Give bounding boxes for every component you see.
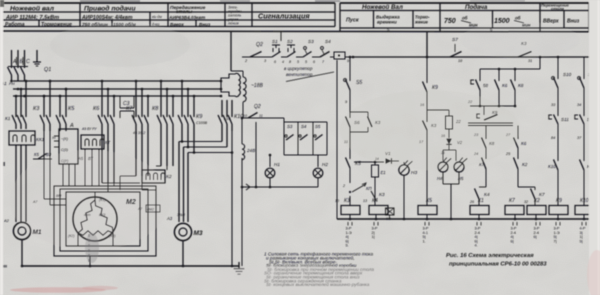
wire K6 K7 drops to M2 loop (102, 131, 148, 190)
switch S6 with parallel contact K3 (344, 112, 381, 144)
svg-text:!Н: !Н (52, 136, 56, 140)
thermal overload relay KK2 (142, 131, 172, 183)
svg-text:К3: К3 (33, 106, 40, 112)
svg-text:84: 84 (551, 136, 555, 140)
svg-text:КП: КП (366, 186, 372, 191)
svg-text:С: С (26, 59, 30, 65)
switch S11 delayed (549, 115, 569, 162)
svg-text:8: 8 (289, 60, 291, 64)
svg-text:принципиальная СР6-10 00 0028: принципиальная СР6-10 00 00283 (449, 262, 547, 268)
wire M3 feeder links (179, 131, 233, 154)
switch S5 (344, 79, 363, 112)
svg-text:Н4: Н4 (437, 176, 443, 181)
svg-text:М3: М3 (194, 230, 203, 237)
svg-text:34: 34 (577, 103, 581, 107)
contact K10 aux (548, 160, 558, 206)
contact K3 on top rail (518, 41, 559, 63)
suppressor element 6C (386, 208, 395, 221)
wire control top rail (353, 57, 597, 115)
button S1 stop (272, 39, 287, 64)
svg-text:Работа: Работа (5, 21, 25, 28)
svg-text:К5: К5 (68, 106, 75, 112)
svg-text:мин: мин (469, 23, 478, 28)
switch S7 on top rail (450, 37, 463, 63)
svg-text:31: 31 (528, 59, 532, 63)
wire bus L3 (13, 95, 221, 97)
svg-text:Н3: Н3 (411, 170, 417, 176)
svg-text:К9: К9 (556, 198, 562, 204)
svg-text:~18В: ~18В (251, 83, 263, 89)
relay coil K2 (527, 198, 546, 219)
wire bus L2 (13, 88, 221, 90)
svg-text:А2: А2 (3, 218, 10, 223)
contact K8 aux top (511, 80, 524, 107)
svg-text:5: 5 (305, 60, 307, 64)
contactor contacts K5 two-pole (56, 88, 75, 131)
svg-text:S3: S3 (287, 124, 293, 129)
contactor contacts K9 three-pole (178, 81, 208, 131)
svg-text:Н2: Н2 (322, 162, 328, 167)
figure caption (446, 253, 547, 268)
svg-text:Подача: Подача (465, 4, 488, 11)
svg-text:6|: 6| (534, 235, 537, 239)
thermal overload relay KK3 (77, 127, 110, 186)
connector X10 plug (221, 73, 240, 121)
svg-text:К2: К2 (534, 198, 540, 204)
svg-text:АИР 112М4; 7,5кВт: АИР 112М4; 7,5кВт (5, 15, 59, 21)
svg-text:10: 10 (243, 114, 247, 118)
svg-text:Вниз: Вниз (199, 22, 211, 27)
svg-text:АИР100S4м; 4/4квт: АИР100S4м; 4/4квт (81, 15, 133, 21)
svg-text:А: А (69, 123, 74, 129)
wire lamp return (241, 118, 318, 266)
contact K9 aux (420, 82, 438, 123)
svg-text:К2: К2 (166, 174, 172, 180)
svg-text:S5: S5 (356, 80, 362, 86)
svg-text:24В: 24В (246, 148, 255, 153)
contact K5 aux (346, 132, 361, 168)
svg-text:К5: К5 (426, 198, 432, 204)
svg-text:S4: S4 (325, 39, 331, 44)
switch S13 delayed (575, 115, 596, 162)
lamp H1 (265, 154, 280, 187)
svg-text:Q1: Q1 (44, 67, 51, 73)
svg-text:об: об (462, 16, 468, 21)
svg-text:4: 4 (282, 60, 284, 64)
svg-text:ления: ления (227, 22, 238, 26)
svg-text:в циркулятор: в циркулятор (284, 66, 313, 71)
contact Q2 control (242, 42, 272, 63)
svg-text:С100В: С100В (196, 121, 208, 125)
svg-text:Торможение: Торможение (41, 22, 72, 28)
wire phase drops to breaker (12, 50, 25, 66)
switch box S3 S4 S5 lamp selectors (284, 118, 327, 155)
relay coil K10 (575, 198, 594, 219)
svg-text:К2: К2 (522, 162, 528, 167)
table: operations header table (right) (340, 3, 589, 32)
wire branch rail K5coil (426, 56, 429, 83)
svg-text:К6: К6 (93, 106, 100, 112)
junction dots on buses (10, 80, 222, 98)
svg-text:К3: К3 (344, 198, 350, 204)
svg-text:S1: S1 (272, 39, 278, 44)
relay coil K5 (418, 198, 437, 219)
wire K3 group drops to M2 left (32, 131, 66, 205)
svg-text:6|: 6| (511, 239, 514, 243)
svg-text:5|: 5| (580, 239, 583, 243)
bracket over buttons (305, 50, 324, 54)
circuit breaker Q1 (8, 66, 52, 81)
wire control bottom bus feed (336, 60, 338, 219)
motor M1 (13, 222, 30, 239)
capacitor C3 (120, 96, 134, 118)
svg-text:Q2: Q2 (256, 42, 263, 48)
notes list bottom (264, 252, 374, 288)
contact Q2 lamp circuit (241, 104, 284, 119)
diode V2 (440, 129, 463, 155)
svg-text:К6: К6 (502, 83, 508, 88)
lamp H2 (313, 155, 328, 187)
label fan interlock (284, 66, 334, 82)
svg-text:К7: К7 (539, 192, 545, 198)
svg-text:58: 58 (483, 83, 488, 88)
svg-text:S10: S10 (563, 72, 572, 77)
time contact K5 delayed (471, 80, 489, 107)
svg-text:х10: х10 (223, 116, 231, 121)
svg-text:К8: К8 (152, 106, 159, 112)
svg-text:−(Х): −(Х) (61, 137, 68, 141)
svg-text:АИР63В4,03квт: АИР63В4,03квт (168, 15, 205, 20)
wire table-bottom jumper to transformer (231, 31, 427, 71)
svg-text:вентилятор: вентилятор (286, 72, 313, 77)
svg-text:S2: S2 (287, 39, 293, 44)
transformer T1 secondary winding 24V (242, 102, 255, 160)
svg-text:К3: К3 (379, 192, 385, 198)
wire bus L1 (13, 80, 221, 82)
svg-text:Вниз: Вниз (567, 19, 580, 25)
contact K9 aux right (580, 160, 593, 206)
table right text cells (346, 3, 580, 33)
svg-text:С(3): С(3) (61, 148, 68, 152)
wire M1 feeder (16, 145, 26, 222)
relay coil K1 (470, 198, 489, 219)
svg-text:К4: К4 (372, 198, 378, 204)
ground bottom right of power section (238, 262, 240, 269)
lamp H5 (443, 150, 467, 219)
resistor E1 (372, 161, 386, 206)
svg-text:3№8: 3№8 (177, 213, 185, 217)
relay coil K3 (335, 196, 360, 219)
resistor R2 (427, 110, 461, 138)
svg-text:S7: S7 (452, 37, 458, 43)
svg-text:Вверх: Вверх (170, 22, 184, 27)
svg-text:Ножевой Вал: Ножевой Вал (362, 4, 403, 11)
connector box X (334, 52, 354, 63)
svg-text:К1: К1 (5, 116, 11, 121)
contact K8 aux lower (473, 126, 495, 160)
contactor contacts K6 three-pole (93, 81, 114, 131)
svg-text:вЬ·дм: вЬ·дм (152, 15, 162, 19)
contact K6 aux top (495, 80, 508, 107)
svg-text:S11: S11 (561, 117, 569, 122)
svg-text:К7: К7 (509, 198, 515, 204)
svg-text:Рис. 16 Схема электрическая: Рис. 16 Схема электрическая (446, 253, 534, 259)
wire block A drops (63, 164, 75, 186)
svg-text:А9 ВУ РУ: А9 ВУ РУ (81, 127, 97, 131)
contact K7 aux above K2 coil (518, 187, 545, 206)
wire branch rail S5 (349, 56, 352, 81)
switch S12 (577, 72, 597, 116)
wire spare vertical right of transformer (255, 122, 258, 188)
svg-text:К9: К9 (196, 114, 202, 120)
svg-text:13: 13 (363, 199, 367, 203)
transformer T1 primary winding ~18V (231, 71, 263, 102)
wire right branch feed (558, 57, 593, 79)
svg-text:45 16-2: 45 16-2 (133, 131, 145, 135)
svg-text:Q2: Q2 (254, 104, 261, 110)
table: machine-modes header table (left) (2, 3, 589, 32)
motor M2 delta winding (68, 197, 160, 241)
svg-text:К4: К4 (484, 192, 490, 198)
contact K4 aux above K1 coil (469, 187, 490, 206)
lamp H4 (437, 150, 456, 181)
contactor contacts K10 three-pole (218, 100, 244, 267)
contact K5-B3 bridge (33, 152, 52, 159)
svg-text:5.: 5. (346, 244, 349, 248)
relay coil K9 (549, 198, 568, 219)
node A phase input labels A B C (12, 57, 30, 65)
svg-text:ВВерх: ВВерх (543, 19, 559, 25)
svg-text:жение: жение (414, 20, 428, 25)
contactor contacts K8 three-pole (152, 81, 173, 131)
svg-text:К8: К8 (518, 83, 524, 88)
switch S3 top (303, 39, 320, 64)
svg-text:Сигнализация: Сигнализация (258, 12, 310, 21)
svg-text:Н1: Н1 (274, 162, 280, 167)
relay coil K7 (505, 187, 524, 219)
contact K3 above K4 coil (371, 191, 385, 200)
lamp H3 (399, 160, 418, 219)
svg-text:В3: В3 (46, 152, 52, 157)
smudge under M2 (85, 233, 99, 264)
svg-text:столы: столы (176, 9, 192, 14)
svg-text:Ножевой вал: Ножевой вал (10, 5, 55, 13)
svg-text:К6: К6 (521, 141, 527, 146)
svg-text:6: 6 (274, 60, 276, 64)
wire control bottom bus (337, 218, 598, 221)
contactor contacts K1 three-pole (5, 81, 26, 129)
svg-text:S4: S4 (301, 124, 307, 129)
svg-text:КК1: КК1 (36, 137, 45, 143)
relay coil K4 (363, 198, 388, 219)
svg-text:К7: К7 (126, 106, 133, 112)
wire stub table to S1 (280, 32, 282, 41)
switch S4 top (320, 39, 334, 64)
switch S10 (551, 72, 572, 116)
svg-text:25: 25 (505, 152, 511, 156)
svg-text:750: 750 (444, 18, 456, 25)
svg-text:S3: S3 (308, 39, 314, 44)
contact K3 aux branch2 (419, 121, 437, 206)
contact K7 aux (473, 152, 486, 187)
contact K2 aux with loop (505, 152, 528, 187)
wire M3 feeder (166, 142, 188, 223)
svg-text:А3: А3 (166, 216, 173, 221)
svg-text:7|: 7| (554, 239, 557, 243)
table left text cells (5, 5, 310, 28)
contact count stacks under coils (346, 222, 587, 248)
wire K8 drops (156, 131, 173, 170)
wire bottom return bus (21, 240, 239, 267)
contactor contacts K7 three-pole (126, 81, 148, 135)
svg-text:6: 6 (313, 60, 315, 64)
thermal overload relay KK1 (9, 131, 35, 145)
svg-text:1.: 1. (423, 239, 426, 243)
motor M3 (174, 223, 191, 240)
relay KN polarized symbol (342, 168, 372, 193)
ground PE input (33, 50, 41, 66)
svg-text:времени: времени (377, 20, 397, 25)
svg-text:1|: 1| (372, 235, 375, 239)
svg-text:К10: К10 (548, 164, 556, 169)
wire M2 nested loop wiring (54, 183, 156, 256)
electronic block A (52, 123, 78, 164)
svg-text:К5: К5 (34, 152, 39, 157)
svg-text:Е1: Е1 (381, 170, 386, 175)
node A1 label (0, 81, 15, 86)
svg-text:2: 2 (342, 184, 345, 188)
svg-text:5: 5 (297, 60, 299, 64)
svg-text:Пуск: Пуск (346, 18, 359, 24)
svg-text:Привод подачи: Привод подачи (84, 5, 136, 13)
contact K6 aux lower (505, 126, 527, 160)
diode V1 (354, 151, 399, 164)
svg-text:11: 11 (259, 114, 263, 118)
svg-text:26: 26 (469, 200, 474, 204)
wire cluster feed from K3 (480, 56, 541, 81)
contactor contacts K3 two-pole (33, 80, 51, 131)
time contact K9 delayed (468, 110, 513, 139)
wire cluster join (467, 100, 516, 115)
svg-text:32: 32 (524, 200, 528, 204)
svg-text:об: об (515, 16, 521, 21)
svg-text:4.: 4. (475, 244, 478, 248)
svg-text:К10: К10 (580, 198, 589, 204)
svg-text:S5: S5 (315, 124, 321, 129)
button S2 stop (287, 39, 303, 64)
svg-text:К1: К1 (478, 198, 484, 204)
svg-text:стола: стола (551, 6, 565, 11)
